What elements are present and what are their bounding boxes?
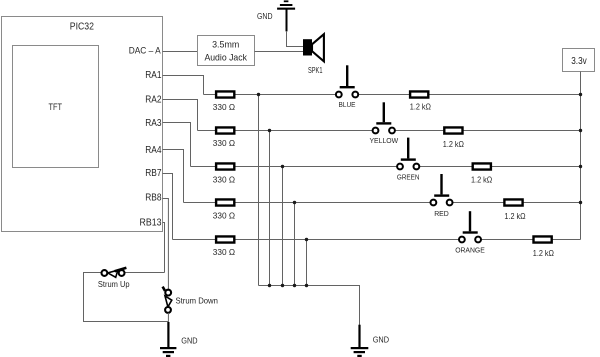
speaker SPK1: [303, 34, 324, 75]
svg-text:330 Ω: 330 Ω: [213, 176, 235, 185]
TFT display block: [13, 46, 99, 168]
wire bottom bus to ground: [259, 286, 360, 326]
wire strum up right to RB13: [125, 272, 165, 274]
junction dot bus bottom 5: [305, 284, 308, 287]
svg-text:RA1: RA1: [145, 70, 161, 81]
wire bus vertical 2: [269, 131, 271, 286]
junction dot rail row4: [579, 201, 582, 204]
svg-text:YELLOW: YELLOW: [369, 136, 398, 145]
resistor R3 330: [213, 163, 235, 184]
junction dot row2 bus: [268, 129, 271, 132]
wire top ground to speaker: [287, 31, 304, 47]
junction dot row4 bus: [293, 201, 296, 204]
svg-text:RA3: RA3: [145, 118, 161, 129]
resistor R8 1.2k: [471, 163, 492, 184]
wire DAC-A to audio jack: [163, 51, 198, 53]
wire bus vertical 4: [294, 203, 296, 286]
junction dot row5 bus: [305, 238, 308, 241]
svg-text:GREEN: GREEN: [397, 173, 420, 182]
resistor R2 330: [213, 127, 235, 148]
wire RB8 stub to strum down: [163, 199, 169, 290]
pushbutton RED: [431, 174, 453, 218]
junction dot rail row3: [579, 165, 582, 168]
pushbutton ORANGE: [455, 211, 485, 254]
ground GND bottom left: [160, 322, 198, 357]
svg-text:RB7: RB7: [145, 168, 161, 179]
svg-text:330 Ω: 330 Ω: [213, 139, 235, 148]
wire row5 orange: [173, 239, 581, 241]
svg-text:1.2 kΩ: 1.2 kΩ: [504, 212, 525, 221]
audio jack box J1: [198, 36, 255, 66]
wire RA3 stub: [163, 123, 191, 167]
resistor R10 1.2k: [533, 236, 554, 257]
svg-text:TFT: TFT: [49, 102, 63, 113]
resistor R7 1.2k: [443, 127, 464, 149]
wire RA4 stub: [163, 150, 184, 203]
svg-text:GND: GND: [373, 335, 389, 345]
wire strum down to ground: [167, 313, 169, 325]
switch SW1 strum up: [98, 268, 130, 289]
ground GND top: [257, 0, 295, 31]
svg-text:3.5mm: 3.5mm: [212, 40, 239, 51]
pushbutton BLUE: [336, 65, 358, 109]
junction dot bus bottom 3: [281, 284, 284, 287]
svg-text:330 Ω: 330 Ω: [213, 248, 235, 257]
svg-text:Strum Up: Strum Up: [98, 280, 130, 289]
svg-text:RED: RED: [434, 209, 449, 218]
wire RB13 stub to strum up: [163, 223, 165, 273]
wire strum up left loop: [84, 273, 169, 322]
wire RA2 stub: [163, 100, 198, 131]
wire bus vertical 3: [282, 167, 284, 286]
svg-text:330 Ω: 330 Ω: [213, 212, 235, 221]
junction dot row1 bus: [257, 93, 260, 96]
PIC32 box U1: [2, 17, 163, 232]
wire row4 red: [184, 202, 581, 204]
resistor R1 330: [213, 91, 235, 112]
svg-text:Audio Jack: Audio Jack: [204, 53, 247, 64]
svg-text:RA4: RA4: [145, 145, 162, 156]
svg-text:Strum Down: Strum Down: [176, 296, 218, 305]
svg-text:SPK1: SPK1: [308, 66, 323, 75]
resistor R9 1.2k: [504, 199, 525, 220]
junction dot bus bottom 4: [293, 284, 296, 287]
junction dot row3 bus: [281, 165, 284, 168]
wire row3 green: [191, 166, 581, 168]
ground GND bottom right: [351, 325, 389, 357]
svg-text:PIC32: PIC32: [70, 21, 94, 33]
svg-text:330 Ω: 330 Ω: [213, 103, 235, 112]
svg-text:RB8: RB8: [145, 193, 161, 204]
wire row2 yellow: [198, 130, 581, 132]
pushbutton YELLOW: [369, 102, 398, 145]
wire 3.3v rail: [580, 72, 582, 240]
power box 3.3v: [563, 49, 595, 72]
svg-text:3.3v: 3.3v: [571, 56, 587, 67]
junction dot rail row1: [579, 93, 582, 96]
svg-text:GND: GND: [257, 11, 273, 21]
wire bus vertical 1: [258, 95, 260, 286]
svg-text:ORANGE: ORANGE: [455, 246, 485, 255]
svg-text:1.2 kΩ: 1.2 kΩ: [410, 102, 431, 111]
resistor R6 1.2k: [410, 91, 431, 111]
svg-text:1.2 kΩ: 1.2 kΩ: [471, 175, 492, 184]
wire row1 blue: [204, 94, 581, 96]
pushbutton GREEN: [397, 138, 420, 182]
wire audio jack to speaker: [255, 51, 304, 53]
resistor R5 330: [213, 236, 235, 257]
resistor R4 330: [213, 199, 235, 220]
svg-text:GND: GND: [181, 335, 197, 345]
junction dot bus bottom 2: [268, 284, 271, 287]
svg-text:RA2: RA2: [145, 95, 161, 106]
svg-text:BLUE: BLUE: [339, 100, 356, 109]
svg-text:RB13: RB13: [140, 218, 162, 229]
junction dot rail row2: [579, 129, 582, 132]
svg-text:DAC – A: DAC – A: [129, 46, 162, 57]
wire bus vertical 5: [306, 240, 308, 286]
svg-text:1.2 kΩ: 1.2 kΩ: [443, 140, 464, 149]
switch SW2 strum down: [163, 287, 218, 313]
wire RB7 stub: [163, 174, 173, 240]
svg-text:1.2 kΩ: 1.2 kΩ: [533, 249, 554, 258]
wire RA1 stub: [163, 76, 204, 95]
